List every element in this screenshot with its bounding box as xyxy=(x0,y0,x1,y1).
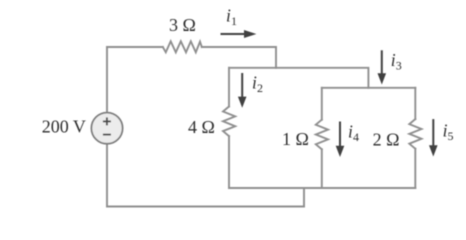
svg-text:1: 1 xyxy=(231,14,237,28)
wire left branch bottom xyxy=(106,144,108,207)
wire left branch top xyxy=(106,47,108,113)
current arrow i1 xyxy=(221,30,257,38)
resistor R 3ohm zigzag xyxy=(163,41,202,52)
wire top-right horizontal with drop at x=276 xyxy=(202,47,276,68)
svg-text:4: 4 xyxy=(353,130,359,144)
wire 1ohm branch top xyxy=(321,88,323,120)
wire 2ohm branch top xyxy=(414,88,416,119)
resistor R 4ohm zigzag xyxy=(223,107,235,137)
wire bottom horizontal xyxy=(107,206,304,208)
resistor R 2ohm zigzag xyxy=(409,119,421,149)
resistor R 1ohm zigzag xyxy=(316,120,328,150)
svg-text:200 V: 200 V xyxy=(42,116,86,136)
current arrow i3 xyxy=(378,50,387,84)
current arrow i2 xyxy=(238,73,247,108)
voltage source V 200V xyxy=(91,113,122,144)
svg-text:2 Ω: 2 Ω xyxy=(373,129,400,149)
wire 4ohm branch bottom xyxy=(228,136,230,188)
wire bottom right riser xyxy=(303,188,305,207)
wire 4ohm branch top xyxy=(228,68,230,107)
current arrow i5 xyxy=(429,119,438,156)
svg-text:1 Ω: 1 Ω xyxy=(282,129,309,149)
wire 1ohm branch bottom xyxy=(321,149,323,188)
svg-text:5: 5 xyxy=(448,129,454,143)
wire inner box top xyxy=(322,87,416,89)
wire bottom middle horizontal xyxy=(229,187,415,189)
svg-text:4 Ω: 4 Ω xyxy=(188,117,215,137)
wire 2ohm branch bottom xyxy=(414,149,416,188)
current arrow i4 xyxy=(336,122,345,158)
svg-text:3: 3 xyxy=(396,58,402,72)
wire second level horizontal with drop to inner box top xyxy=(229,68,368,88)
wire top-left horizontal xyxy=(107,46,163,48)
svg-text:2: 2 xyxy=(257,81,263,95)
svg-text:3 Ω: 3 Ω xyxy=(169,15,196,35)
